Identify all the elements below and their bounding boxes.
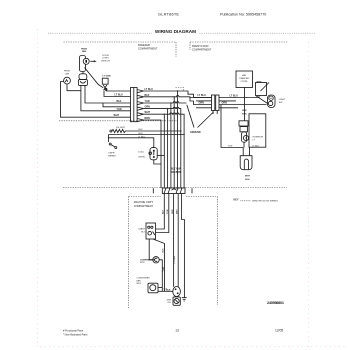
- stub box to wire: [258, 96, 260, 98]
- fresh door switch plunger: [268, 95, 276, 108]
- connector C2: [212, 95, 215, 111]
- interior light connector stack: [239, 121, 248, 126]
- svg-text:12/05: 12/05: [275, 329, 283, 333]
- svg-text:COMPARTMENT: COMPARTMENT: [138, 47, 158, 50]
- svg-text:BLK: BLK: [145, 94, 150, 97]
- fresh wire y104.5 right: [219, 104, 267, 106]
- C1 fanout pin r6: [137, 119, 143, 122]
- wire door switch right lead: [107, 90, 131, 92]
- wire w5 jog down: [182, 194, 185, 298]
- wire from C2 down to y147.5: [220, 105, 222, 148]
- fresh wire y107.8: [196, 107, 212, 109]
- ground screw: [173, 297, 180, 305]
- C2 bottom pins: [212, 111, 214, 115]
- chassis ground: [182, 297, 187, 299]
- wire w4 down: [177, 194, 179, 287]
- lower def wire: [108, 134, 184, 136]
- air damper control box: [236, 71, 253, 88]
- svg-text:LT BLU: LT BLU: [198, 94, 207, 97]
- svg-text:10L WHT: 10L WHT: [116, 127, 126, 129]
- svg-text:ORN: ORN: [199, 101, 205, 104]
- svg-text:DAMPER: DAMPER: [240, 77, 250, 80]
- freezer fan motor symbol A: [80, 56, 86, 72]
- svg-text:DENOTES 60 HZ WIRING: DENOTES 60 HZ WIRING: [252, 201, 278, 203]
- wire row6: [144, 120, 162, 188]
- svg-text:GLRT86TE: GLRT86TE: [158, 12, 179, 17]
- svg-text:BLK: BLK: [139, 129, 144, 131]
- fold mark right vertical: [308, 42, 310, 347]
- title rule left: [48, 32, 152, 34]
- vertical v2: [173, 97, 175, 188]
- wire fan A to fan B: [82, 72, 84, 74]
- grommet oval: [173, 287, 181, 297]
- arrow to door light switch label: [90, 60, 95, 62]
- svg-text:BRN: BRN: [145, 117, 150, 120]
- svg-text:MACHINE CMPT: MACHINE CMPT: [134, 201, 154, 204]
- freezer evap fan motor symbol B: [79, 74, 87, 80]
- interior lamp: [242, 132, 247, 142]
- def third wire: [108, 138, 153, 148]
- connector C3 hatched: [162, 188, 185, 194]
- svg-text:YLW: YLW: [163, 267, 165, 271]
- svg-text:LT GRN: LT GRN: [103, 76, 111, 78]
- svg-text:BLK: BLK: [245, 179, 250, 181]
- C1 fanout pin r5: [137, 113, 143, 116]
- wire freezer light bottom lead: [67, 84, 81, 91]
- svg-text:ORN: ORN: [222, 102, 228, 105]
- C3 side stub left: [152, 188, 154, 193]
- svg-text:AIR: AIR: [242, 74, 246, 77]
- C1 fanout pin r3: [137, 102, 143, 105]
- compressor motor: [153, 257, 159, 263]
- wire door switch left lead: [104, 91, 131, 97]
- svg-text:MTR: MTR: [137, 283, 142, 285]
- fresh wire y100.9: [196, 100, 212, 102]
- svg-text:240598801: 240598801: [267, 301, 284, 305]
- wire w2 to relay: [156, 194, 169, 233]
- svg-text:DOOR: DOOR: [102, 55, 109, 57]
- svg-text:WHT: WHT: [145, 111, 151, 114]
- vertical v4: [167, 109, 169, 188]
- C1 fanout pin r4: [137, 107, 143, 110]
- machine compartment dashed box: [129, 197, 218, 309]
- svg-text:BLK: BLK: [166, 289, 171, 291]
- freezer light lamp: [64, 77, 71, 84]
- svg-text:BLK: BLK: [242, 114, 247, 116]
- compressor relay box: [146, 223, 156, 239]
- svg-text:FRZR: FRZR: [64, 71, 70, 73]
- wire row4: [144, 107, 181, 188]
- C1 fanout pin r2: [137, 95, 143, 98]
- vertical v3: [170, 103, 172, 188]
- svg-text:WHT: WHT: [245, 175, 251, 177]
- wire compressor right: [159, 260, 162, 292]
- svg-text:MTR: MTR: [140, 262, 145, 264]
- condenser fan lead: [158, 287, 162, 289]
- vertical v5: [163, 114, 165, 188]
- svg-text:WIRING DIAGRAM: WIRING DIAGRAM: [155, 29, 196, 34]
- svg-text:SWITCH: SWITCH: [101, 60, 110, 62]
- svg-text:# Functional Parts: # Functional Parts: [63, 330, 84, 333]
- svg-text:KEY: KEY: [234, 199, 239, 202]
- C1 fanout pin r1: [137, 90, 143, 93]
- wire y147.5: [221, 147, 243, 149]
- svg-text:CNTRL: CNTRL: [241, 81, 249, 83]
- wire cold control right: [157, 154, 164, 156]
- svg-text:Publication No: 5995458770: Publication No: 5995458770: [220, 13, 266, 17]
- vertical v1: [177, 91, 179, 188]
- svg-text:GROUND: GROUND: [190, 131, 201, 134]
- switch lever diagonal: [261, 83, 270, 92]
- svg-text:DEFR: DEFR: [109, 153, 115, 155]
- svg-text:LT BLU: LT BLU: [115, 93, 124, 96]
- interior light drop wire: [244, 98, 246, 121]
- svg-text:LMP: LMP: [65, 73, 70, 75]
- svg-text:COLD: COLD: [138, 151, 144, 153]
- svg-text:YLW: YLW: [117, 108, 123, 111]
- svg-text:ORN: ORN: [145, 106, 151, 109]
- svg-text:ORN BRN: ORN BRN: [170, 172, 180, 174]
- wire fan B right lead: [85, 85, 131, 103]
- title rule right: [200, 32, 317, 34]
- wire row1 to C2: [144, 91, 212, 98]
- svg-text:BLK: BLK: [139, 133, 144, 135]
- left bracket vertical: [107, 135, 109, 142]
- svg-text:LT BLU: LT BLU: [230, 95, 239, 98]
- door switch box: [256, 83, 267, 96]
- svg-text:YLW: YLW: [145, 100, 151, 103]
- svg-text:LIGHT: LIGHT: [102, 58, 109, 60]
- defrost thermostat switch: [109, 143, 111, 145]
- damper lead: [244, 88, 246, 98]
- svg-text:LT BLU: LT BLU: [145, 88, 154, 91]
- svg-text:CNTRL: CNTRL: [138, 156, 146, 158]
- svg-text:COMPARTMENT: COMPARTMENT: [134, 205, 154, 208]
- wire cold control bottom: [154, 160, 161, 164]
- wire freezer light left lead: [61, 82, 131, 118]
- svg-text:ORN: ORN: [172, 209, 174, 214]
- svg-text:RLY: RLY: [141, 232, 146, 234]
- dashed corner artifact: [176, 88, 184, 92]
- connector C1: [131, 88, 138, 122]
- wire fan B left lead: [81, 85, 131, 111]
- svg-text:WHT: WHT: [177, 209, 179, 214]
- relay bottom diagonal wire: [153, 239, 165, 291]
- svg-text:BLK: BLK: [163, 248, 165, 253]
- relay to compressor wire: [149, 239, 153, 260]
- condenser output wire: [158, 290, 173, 292]
- wire row3 ground spur: [144, 102, 187, 103]
- fresh wire y97.5: [190, 97, 212, 99]
- fresh food compartment dashed box: [190, 42, 288, 50]
- fold mark bottom horizontal: [40, 346, 345, 348]
- wire row4 branch: [103, 103, 131, 107]
- freezer door switch: [102, 78, 108, 84]
- wire row2 to C2: [144, 96, 212, 105]
- freezer compartment dashed box: [59, 42, 177, 121]
- wire lamp down: [243, 142, 245, 148]
- svg-text:LT GRN: LT GRN: [174, 256, 176, 264]
- svg-text:COMPARTMENT: COMPARTMENT: [192, 48, 212, 51]
- separator dashed line: [63, 187, 287, 189]
- cold control: [150, 148, 157, 160]
- svg-text:BLK: BLK: [163, 209, 165, 214]
- power plug: [242, 148, 244, 156]
- diagonal fan A to door switch: [85, 68, 104, 88]
- svg-text:YLW: YLW: [167, 210, 169, 214]
- svg-text:THERM: THERM: [108, 156, 116, 158]
- svg-text:INTERIOR: INTERIOR: [253, 136, 264, 138]
- svg-text:BLK: BLK: [242, 110, 247, 112]
- fold mark left vertical: [37, 29, 39, 347]
- wire w1 to relay: [156, 194, 165, 230]
- wire w3 down: [173, 194, 175, 287]
- svg-text:BLK: BLK: [117, 100, 122, 103]
- svg-text:13: 13: [175, 328, 179, 332]
- C3 side stub right: [191, 188, 193, 193]
- svg-text:START: START: [138, 228, 145, 231]
- svg-text:LT BLU: LT BLU: [252, 146, 260, 148]
- svg-text:WHT: WHT: [114, 114, 120, 117]
- condenser fan motor: [148, 283, 158, 293]
- svg-text:CONDENSER: CONDENSER: [137, 277, 151, 279]
- svg-text:FAN: FAN: [82, 50, 87, 53]
- svg-text:BLK YLW: BLK YLW: [171, 168, 182, 170]
- control housing box: [249, 114, 266, 147]
- wire row5: [144, 113, 185, 188]
- def heater resistor: [110, 130, 112, 132]
- svg-text:FAN: FAN: [137, 279, 142, 282]
- diagonal box to plunger: [256, 96, 268, 104]
- svg-text:LIGHT: LIGHT: [279, 99, 286, 101]
- svg-text:* Non-Illustrated Parts: * Non-Illustrated Parts: [63, 334, 88, 337]
